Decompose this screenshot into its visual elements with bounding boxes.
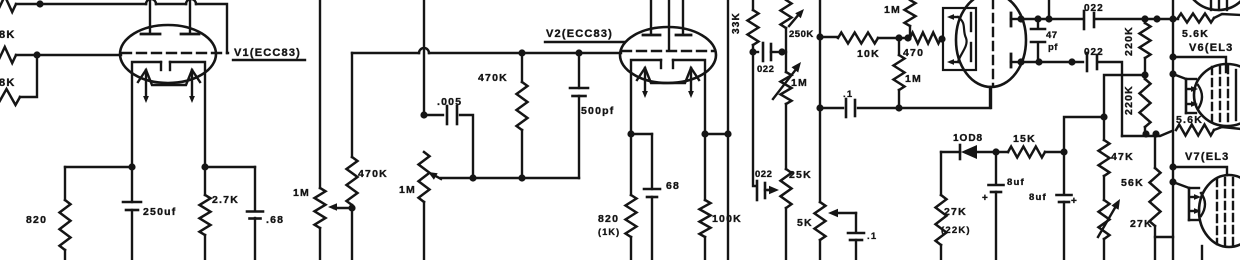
svg-text:47K: 47K [1111,151,1134,163]
wire plate load up [1048,0,1050,19]
node 470K top [518,49,525,56]
node on vertical bus [724,130,731,137]
tube V2 envelope [620,27,716,83]
svg-text:8K: 8K [0,29,15,41]
node V1 right cathode [201,163,208,170]
svg-text:470K: 470K [358,168,388,180]
resistor 10K [838,33,878,44]
resistor 15K [1008,147,1045,158]
node 8uf-1 top [992,148,999,155]
capacitor 8uf first [995,152,997,184]
potentiometer 5K [815,202,826,240]
svg-text:56K: 56K [1121,177,1144,189]
capacitor 022 upper [1083,11,1086,29]
wire bias rail [941,151,960,153]
V1 plate bar right [181,33,199,36]
V2 cathode box left side [631,60,661,134]
capacitor .005 branch vertical [423,0,425,115]
node V2 right cathode [701,130,708,137]
V7 cathode link [1173,182,1189,188]
capacitor 47pf [1037,19,1039,28]
250K wiper arrow [789,13,800,26]
svg-text:27K: 27K [944,206,967,218]
V5 grid dashes [1210,0,1212,10]
V2 plate bar right [676,34,691,37]
V2 plate bar left [643,34,660,37]
node extra top wire [1153,15,1160,22]
phase splitter cathode stem [990,87,992,108]
V1 heater leg left [145,70,147,97]
V2 plate lead right [682,0,684,34]
capacitor 022 lower [1086,53,1089,71]
V1 heater leg right [191,70,193,97]
wire y108 with .1 cap [820,107,843,109]
svg-text:.1: .1 [867,231,877,242]
node junction on top wire [36,0,43,7]
resistor 8K input (top, cut by left edge) [0,0,16,12]
1M tone wiper arrow [773,68,797,99]
27K wiper arrow [1098,206,1116,237]
node V2 left cathode [627,130,634,137]
V7 heater loop [1201,193,1205,216]
resistor 100K [704,134,706,200]
potentiometer 27K [1099,200,1110,239]
svg-text:10K: 10K [857,48,880,60]
wire bias feed [1064,117,1104,152]
V7 cathode bar [1188,188,1191,220]
node bus V7 grid [1169,163,1176,170]
svg-text:8uf: 8uf [1029,192,1047,203]
node 1M bottom [895,104,902,111]
V6 grid dashes [1211,67,1213,123]
V6 cathode bar [1185,79,1188,113]
svg-text:1OD8: 1OD8 [953,133,983,144]
svg-text:15K: 15K [1013,133,1036,145]
node 8uf-2 top [1060,148,1067,155]
wire V7 grid feed [1173,167,1227,175]
capacitor .1 lower [855,213,857,232]
resistor 56K [1154,133,1156,168]
wire 470 to grid box [942,38,943,40]
V7 grid dashes [1216,179,1218,244]
svg-text:1M: 1M [884,4,901,16]
node 470K bottom [518,174,525,181]
svg-text:V1(ECC83): V1(ECC83) [234,47,301,59]
svg-text:5K: 5K [797,217,813,229]
svg-text:1M: 1M [791,77,808,89]
node bus top [1169,15,1176,22]
svg-text:250uf: 250uf [143,206,176,218]
svg-text:820: 820 [598,213,619,225]
node plate lead bottom [1017,58,1024,65]
svg-text:022: 022 [755,169,772,180]
capacitor 022 treble [753,51,758,53]
5K wiper arrow [828,209,838,217]
svg-text:022: 022 [1084,47,1104,58]
svg-text:+: + [1071,196,1078,207]
V1 heater filament [138,70,200,85]
wire V2 grid bus [352,52,419,54]
svg-text:V2(ECC83): V2(ECC83) [546,28,613,40]
wire top-left bus to V1 right grid [16,3,146,5]
resistor 1M (top) [905,0,916,26]
svg-text:2.7K: 2.7K [212,194,239,206]
V1 plate lead left [149,0,151,33]
node bus V6 grid [1169,53,1176,60]
1M second wiper arrow [432,174,441,179]
svg-text:68: 68 [666,180,680,192]
resistor 2.7K (V1 cathode) [204,167,206,195]
capacitor 022 bass branch [753,52,756,186]
resistor 47K [1103,117,1105,140]
svg-text:1M: 1M [399,184,416,196]
resistor 470K upper [521,53,523,82]
node plate lead top [1017,15,1024,22]
V6 cathode link [1173,74,1186,79]
wire V2 right cathode to bus [705,133,728,135]
node .005 bottom [469,174,476,181]
phase splitter dashed grid [992,0,994,86]
resistor 33K [752,0,754,10]
node plate load top [1045,15,1052,22]
wire 15K to junction [1045,151,1064,153]
resistor 820 (V1 cathode) [64,167,66,200]
wire V6 grid feed [1173,57,1226,72]
grid box cathode bar upper [970,13,972,31]
node 220K-1 top [1141,15,1148,22]
potentiometer 25K [781,169,792,208]
wire bias tap [1104,75,1145,117]
capacitor .68 [254,167,256,211]
V1 cathode box left tick [160,62,162,70]
node 022 right [778,48,785,55]
svg-text:250K: 250K [789,29,814,40]
V2 heater leg right [690,68,692,92]
node x820 y37 [816,33,823,40]
V2 cathode box left tick [660,60,662,68]
resistor 5.6K upper [1178,14,1214,23]
tube V1 envelope [120,25,216,83]
wire long vertical bus x728 [727,0,729,260]
node x820 y108 [816,104,823,111]
svg-text:25K: 25K [789,169,812,181]
svg-text:5.6K: 5.6K [1176,114,1203,126]
resistor 8K second (cut by left edge) [0,47,16,63]
wire wiper bus y178 [441,177,579,179]
wire V1 left cathode node [65,166,132,168]
resistor 220K upper [1144,19,1146,23]
svg-text:220K: 220K [1123,26,1135,56]
potentiometer 1M second [419,152,430,202]
V1 plate lead right [189,0,191,33]
node 470 right [938,35,945,42]
V1 cathode box right tick [169,62,171,70]
svg-text:33K: 33K [731,12,742,34]
plate bar lower [1010,54,1013,67]
wire V7 grid node [1122,131,1172,136]
phase splitter envelope [956,0,1026,87]
wire 10K to junction [878,37,910,39]
capacitor .005 [424,114,443,116]
node 47pf bottom [1035,58,1042,65]
node 220K-2 bottom [1142,130,1149,137]
node grid wire second [1152,130,1159,137]
node 220K junction [1141,71,1148,78]
tube V6 envelope [1194,64,1240,126]
resistor 1M (middle) [898,38,900,55]
wire upper plate output [1021,18,1083,20]
wire from third resistor up to grid node [20,55,37,97]
V2 cathode box right side [673,60,705,134]
svg-text:8K: 8K [0,77,15,89]
svg-text:220K: 220K [1123,85,1135,115]
resistor 220K lower [1144,75,1146,79]
V2 grid dashed line [622,50,714,52]
node 10K right [895,34,902,41]
1M wiper arrow [334,207,352,209]
svg-text:1M: 1M [905,73,922,85]
svg-text:470K: 470K [478,72,508,84]
V7 stem [1201,246,1203,260]
capacitor 68 [651,134,653,189]
svg-text:+: + [982,193,989,204]
potentiometer 250K [781,0,792,28]
V2 plate lead left [650,0,652,34]
V6 heater loop [1198,85,1202,109]
V1 grid dashed line [122,52,228,54]
svg-text:pf: pf [1048,42,1058,53]
V2 cathode box right tick [672,60,674,68]
svg-text:V7(EL3: V7(EL3 [1185,151,1230,163]
wire lower plate output [1021,61,1083,63]
diode 10D8 [959,145,962,159]
svg-text:8uf: 8uf [1007,177,1025,188]
wire long vertical x820 with 5K [819,0,821,202]
grid arrow lower [951,61,958,63]
tube V5 envelope (cut at top) [1185,0,1240,10]
svg-text:022: 022 [1084,3,1104,14]
resistor 27K (22K) [940,152,942,195]
phase splitter grid box [943,8,976,70]
node V6 cathode link [1169,70,1176,77]
tube V7 envelope [1199,175,1240,247]
wire bus bottom rung [1155,237,1173,260]
node bus V7 cathode [1169,178,1176,185]
node bias tap [1100,113,1107,120]
V1 cathode box left side [132,62,161,167]
V1 cathode box right side [170,62,205,167]
resistor 820 (1K) V2 cathode [630,134,632,195]
svg-text:5.6K: 5.6K [1182,28,1209,40]
wire to 68 capacitor [631,133,652,135]
V7 heater arrows [1191,196,1197,198]
V2 heater filament [637,68,699,83]
svg-text:47: 47 [1046,30,1058,41]
potentiometer 1M (volume) vertical line [319,0,321,188]
node V1 left cathode [128,163,135,170]
svg-text:470: 470 [903,47,924,59]
svg-text:1M: 1M [293,187,310,199]
resistor 470K lower column [351,53,353,157]
node 33K bottom [749,48,756,55]
svg-text:500pf: 500pf [581,105,614,117]
resistor third (cut by left edge) [0,89,20,105]
svg-text:.1: .1 [843,89,853,100]
V1 plate bar left [141,33,160,36]
plate lead upper [1011,18,1021,20]
node 500pf top [575,49,582,56]
V2 heater leg left [644,68,646,92]
wire to .68 capacitor [205,166,255,168]
wire right bus [1172,0,1174,237]
grid box inner link [958,17,967,62]
node .005 branch [420,111,427,118]
capacitor 500pf [578,53,580,88]
node wiper junction [348,204,355,211]
node lower wire [1068,58,1075,65]
V6 plate line [1235,70,1237,120]
grid arrow upper [951,16,958,18]
resistor 5.6K lower [1176,125,1214,136]
node 47pf top [1034,15,1041,22]
V2 grid lead center [668,0,670,50]
capacitor 250uf [131,167,133,202]
svg-text:(22K): (22K) [941,225,971,236]
plate lead lower [1011,61,1021,63]
svg-text:.005: .005 [437,96,462,108]
svg-text:.68: .68 [266,214,284,226]
svg-text:V6(EL3: V6(EL3 [1189,42,1234,54]
svg-text:(1K): (1K) [598,227,620,237]
capacitor 8uf second [1063,152,1065,194]
node junction grid wire [33,51,40,58]
V6 heater arrows [1188,88,1194,90]
wire y37 feed [820,36,838,38]
svg-text:820: 820 [26,214,47,226]
svg-text:022: 022 [757,64,774,75]
022 bass wiper arrow [768,189,772,191]
node 1M top lead [904,34,911,41]
resistor 470 [910,33,941,44]
grid box cathode bar lower [970,43,972,61]
wire to V1 left grid [16,54,121,56]
plate bar upper [1010,13,1013,26]
potentiometer 1M tone [785,52,787,72]
